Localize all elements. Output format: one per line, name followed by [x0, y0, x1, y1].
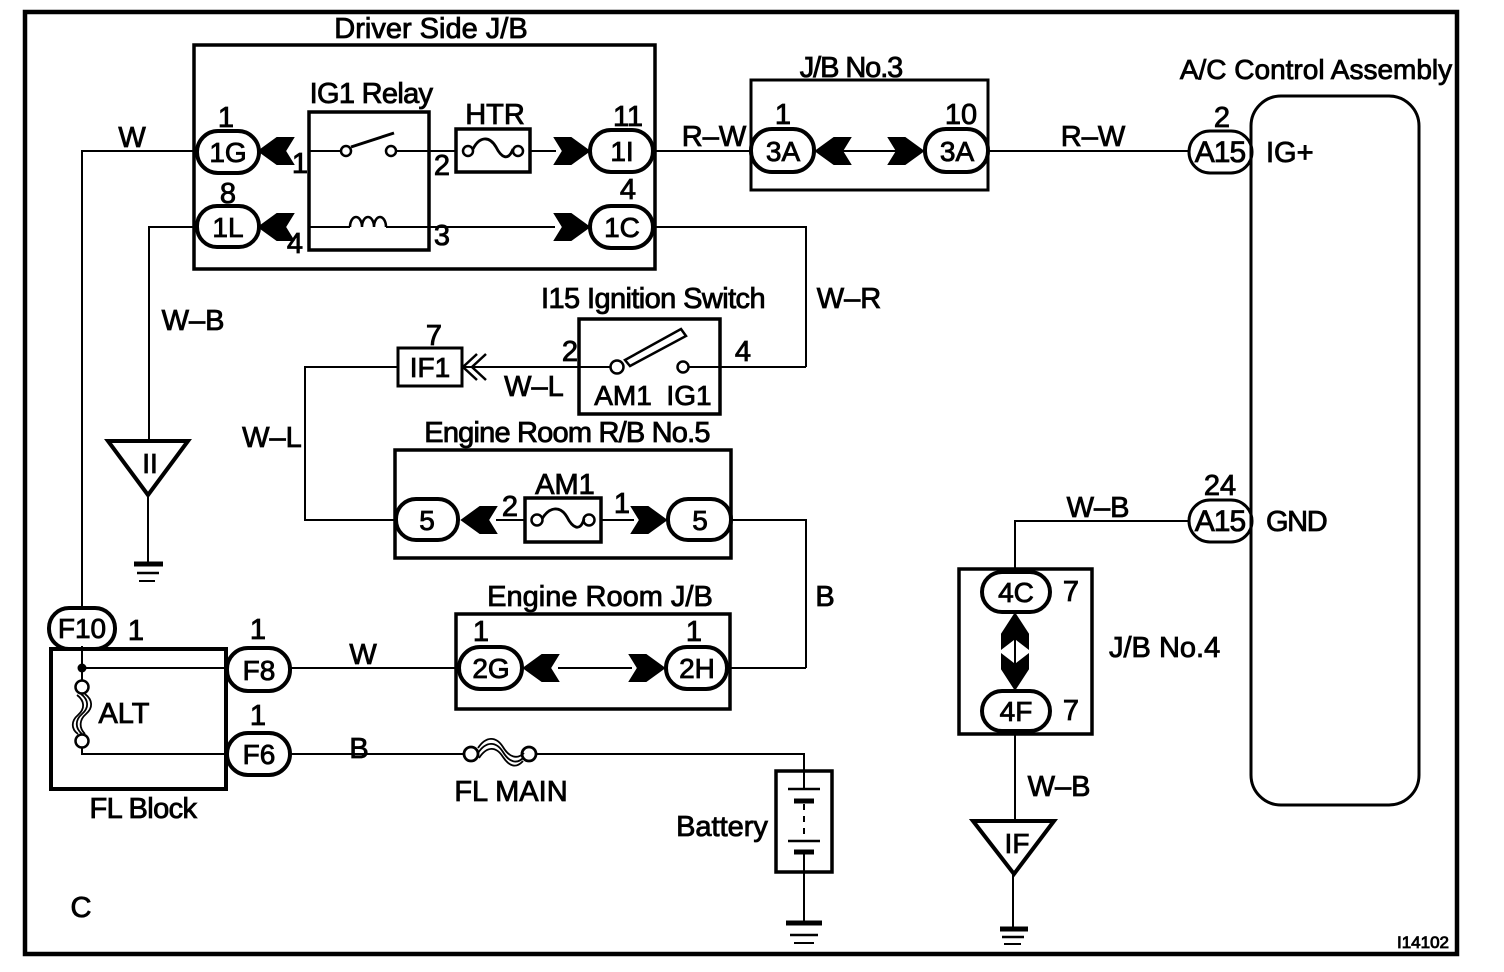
Engine Room R/B No.5 box [395, 450, 731, 558]
wire II to ground [147, 495, 149, 562]
arrow toward 3A right [889, 138, 923, 164]
svg-text:10: 10 [945, 99, 977, 131]
wire A15 GND to 4C [1015, 521, 1189, 572]
svg-text:4: 4 [287, 228, 303, 260]
wire F6 to FL MAIN [290, 753, 465, 755]
arrow toward 2G [524, 655, 558, 681]
svg-text:2G: 2G [472, 653, 509, 684]
battery box [776, 771, 832, 872]
wire relay row1 out [396, 150, 456, 152]
wire FL MAIN to battery [535, 754, 804, 771]
svg-text:W: W [349, 639, 377, 671]
svg-text:I15 Ignition Switch: I15 Ignition Switch [541, 283, 765, 315]
connector 5 left [396, 499, 458, 540]
wire 4F to IF triangle [1014, 731, 1016, 820]
connector F10 [49, 608, 115, 649]
svg-text:1: 1 [128, 615, 144, 647]
svg-text:AM1: AM1 [594, 380, 652, 411]
svg-text:4F: 4F [1000, 696, 1033, 727]
connector 4C [982, 572, 1050, 612]
svg-text:IG+: IG+ [1266, 137, 1314, 169]
svg-text:1: 1 [775, 99, 791, 131]
svg-text:I14102: I14102 [1397, 933, 1449, 952]
alternator ALT terminal top [76, 681, 89, 694]
wire 1I to 3A [653, 150, 751, 152]
svg-text:1: 1 [686, 616, 702, 648]
fuse HTR box [456, 129, 530, 172]
svg-text:4: 4 [735, 336, 751, 368]
svg-text:2: 2 [434, 150, 450, 182]
arrow toward 5 right [632, 507, 666, 533]
arrow toward 5 left [462, 507, 496, 533]
connector A15 pin2 [1189, 131, 1252, 173]
svg-text:7: 7 [1063, 576, 1079, 608]
connector 3A right [925, 129, 988, 172]
svg-text:IG1: IG1 [666, 380, 711, 411]
svg-text:1: 1 [292, 148, 308, 180]
svg-text:8: 8 [220, 178, 236, 210]
svg-text:5: 5 [692, 505, 708, 536]
svg-text:7: 7 [1063, 695, 1079, 727]
wire between 3A ovals [814, 150, 925, 152]
svg-text:1: 1 [250, 614, 266, 646]
svg-text:W–L: W–L [242, 422, 302, 454]
connector F6 [227, 733, 290, 775]
switch contact IG1 [678, 362, 689, 373]
relay switch contact A [341, 146, 351, 156]
ground symbol II [134, 562, 163, 567]
svg-text:2H: 2H [679, 653, 715, 684]
wire dot to F8 [82, 667, 227, 669]
wire 2H to B riser [727, 667, 806, 669]
wire switch pin4 to riser [720, 366, 806, 368]
fusible link FL MAIN [464, 747, 478, 761]
wire alternator to F6 [82, 747, 227, 754]
connector 1G [197, 131, 259, 173]
wire between 4C and 4F [1014, 612, 1016, 691]
wire IF to ground [1012, 874, 1014, 927]
wire arrow to fuse [496, 519, 525, 521]
svg-text:FL Block: FL Block [90, 793, 198, 825]
wire fuse to arrow [601, 519, 634, 521]
ignition switch I15 box [579, 319, 720, 414]
svg-text:1: 1 [250, 700, 266, 732]
svg-text:1: 1 [614, 488, 630, 520]
arrow up in J/B No.4 [1002, 614, 1028, 648]
arrow into 1I [555, 138, 589, 164]
svg-text:R–W: R–W [1061, 121, 1126, 153]
wire battery to ground [803, 872, 805, 921]
svg-text:1I: 1I [610, 136, 633, 167]
svg-text:3A: 3A [940, 136, 975, 167]
battery internals [803, 771, 805, 789]
svg-text:11: 11 [613, 101, 643, 133]
svg-text:3: 3 [434, 220, 450, 252]
arrow into 1C [555, 214, 589, 240]
J/B No.3 box [751, 80, 988, 190]
wire HTR to arrow [530, 150, 556, 152]
J/B No.4 box [959, 569, 1092, 734]
wire between arrows [558, 667, 632, 669]
svg-text:R–W: R–W [682, 121, 747, 153]
svg-text:IF1: IF1 [410, 352, 450, 383]
ground symbol battery [786, 921, 822, 926]
connector A15 pin24 [1189, 500, 1252, 542]
svg-text:HTR: HTR [465, 99, 525, 131]
connector F8 [227, 648, 290, 691]
svg-text:W: W [118, 122, 146, 154]
svg-text:GND: GND [1266, 506, 1327, 538]
connector 1I [590, 130, 653, 172]
svg-text:A15: A15 [1195, 136, 1246, 169]
arrow into 1L [259, 214, 293, 240]
A/C Control Assembly outline [1251, 96, 1419, 805]
svg-text:W–B: W–B [1028, 771, 1091, 803]
svg-text:4C: 4C [998, 577, 1034, 608]
svg-text:4: 4 [620, 174, 636, 206]
svg-text:FL MAIN: FL MAIN [454, 776, 567, 808]
connector 2H [666, 647, 727, 689]
fuse AM1 element [532, 515, 543, 526]
svg-text:W–L: W–L [504, 371, 564, 403]
FL Block box [51, 649, 226, 789]
wire relay row2 in [309, 226, 350, 228]
wire IF1 left and down to R/B5 [305, 367, 398, 520]
svg-text:Driver Side J/B: Driver Side J/B [334, 13, 527, 45]
Engine Room J/B box [456, 614, 730, 709]
wire 1C to W-R riser [653, 227, 806, 367]
connector 4F [982, 691, 1050, 731]
svg-text:1: 1 [473, 616, 489, 648]
svg-text:IF: IF [1005, 828, 1030, 859]
svg-text:J/B No.4: J/B No.4 [1109, 632, 1220, 664]
switch lever [625, 329, 686, 366]
wire switch pin4 inside [689, 366, 720, 368]
arrow down in J/B No.4 [1002, 655, 1028, 689]
svg-text:3A: 3A [766, 136, 801, 167]
svg-text:5: 5 [419, 505, 435, 536]
wire relay row1 [309, 150, 341, 152]
junction dot alternator [78, 664, 87, 673]
chevrons at IF1 [463, 354, 477, 380]
svg-text:B: B [349, 733, 368, 765]
svg-text:7: 7 [426, 320, 442, 352]
svg-text:Engine Room J/B: Engine Room J/B [487, 581, 713, 613]
svg-text:24: 24 [1204, 470, 1236, 502]
wire switch pin2 inside [579, 366, 610, 368]
relay coil [350, 217, 386, 227]
fuse HTR element [463, 146, 473, 156]
svg-text:1: 1 [218, 102, 234, 134]
arrow toward 2H [630, 655, 664, 681]
wire F8 to 2G [290, 667, 459, 669]
svg-text:W–B: W–B [1067, 492, 1130, 524]
wire 5 right to B riser [731, 520, 806, 668]
ground triangle II [108, 441, 188, 495]
fuse IF1 box [398, 348, 462, 386]
alternator ALT terminal bottom [76, 735, 89, 748]
svg-text:2: 2 [1214, 102, 1230, 134]
wire 3A to A15 [988, 150, 1189, 152]
connector 1C [590, 206, 653, 248]
wire from 1L left and down to ground II [149, 227, 197, 441]
svg-text:IG1 Relay: IG1 Relay [310, 78, 434, 110]
ground triangle IF [973, 821, 1054, 874]
svg-text:AM1: AM1 [535, 469, 595, 501]
svg-text:F6: F6 [243, 739, 276, 770]
svg-text:A15: A15 [1195, 505, 1246, 538]
switch contact AM1 [611, 361, 624, 374]
svg-text:Battery: Battery [676, 811, 768, 843]
svg-text:2: 2 [502, 491, 518, 523]
wire relay row2 out [386, 226, 555, 228]
svg-text:1L: 1L [212, 212, 243, 243]
connector 2G [459, 647, 522, 689]
arrow into 1G [259, 138, 293, 164]
svg-text:ALT: ALT [98, 698, 149, 730]
svg-text:W–B: W–B [162, 305, 225, 337]
svg-text:A/C Control Assembly: A/C Control Assembly [1180, 54, 1452, 85]
svg-text:F10: F10 [58, 613, 106, 644]
svg-text:2: 2 [562, 336, 578, 368]
Driver Side J/B box [194, 45, 655, 269]
svg-text:B: B [815, 581, 834, 613]
alternator winding [77, 694, 87, 734]
relay switch lever [351, 133, 394, 147]
svg-text:C: C [71, 892, 92, 924]
connector 1L [197, 206, 259, 247]
svg-text:F8: F8 [243, 655, 276, 686]
ground symbol IF [1000, 927, 1028, 932]
svg-text:1C: 1C [604, 212, 640, 243]
relay switch contact B [386, 146, 396, 156]
svg-text:J/B No.3: J/B No.3 [800, 52, 902, 84]
svg-text:1G: 1G [209, 137, 246, 168]
relay IG1 box [309, 112, 429, 250]
connector 5 right [668, 499, 731, 540]
wire F10 into block [81, 646, 83, 681]
fuse AM1 box [525, 498, 601, 542]
svg-text:W–R: W–R [817, 283, 881, 315]
wire switch pin2 to IF1 [462, 366, 579, 368]
svg-text:Engine Room R/B No.5: Engine Room R/B No.5 [424, 417, 709, 449]
arrow toward 3A left [816, 138, 850, 164]
connector 3A left [751, 129, 814, 172]
wire W from 1G left and down to F10 [82, 151, 197, 608]
svg-text:II: II [142, 448, 158, 479]
